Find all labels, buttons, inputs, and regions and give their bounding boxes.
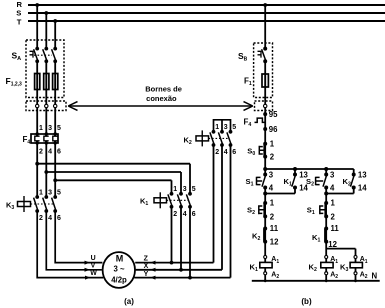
svg-text:5: 5 [192,186,196,193]
svg-text:11: 11 [331,224,340,233]
svg-text:S: S [16,8,21,17]
svg-text:4: 4 [183,211,187,218]
svg-text:6: 6 [232,149,236,156]
svg-text:96: 96 [269,125,278,134]
svg-text:4/2p: 4/2p [111,275,127,284]
svg-text:3: 3 [330,170,335,179]
svg-text:X: X [144,263,149,270]
svg-text:U: U [91,255,96,262]
svg-text:M: M [116,253,124,263]
svg-text:3: 3 [269,170,274,179]
svg-text:4: 4 [48,215,52,222]
svg-text:3: 3 [48,189,52,196]
svg-text:conexão: conexão [146,94,177,103]
svg-text:12: 12 [270,238,279,247]
svg-text:Z: Z [144,255,149,262]
svg-text:T: T [17,17,22,26]
svg-text:6: 6 [57,148,61,155]
svg-text:3 ~: 3 ~ [113,264,125,273]
svg-text:V: V [91,262,96,269]
svg-text:2: 2 [39,148,43,155]
svg-text:2: 2 [39,215,43,222]
svg-text:5: 5 [57,125,61,132]
svg-text:1: 1 [215,124,219,131]
svg-text:1: 1 [173,186,177,193]
svg-text:1: 1 [39,125,43,132]
svg-text:(b): (b) [301,297,312,306]
svg-text:6: 6 [192,211,196,218]
svg-text:2: 2 [173,211,177,218]
svg-text:1: 1 [270,139,275,148]
svg-text:(a): (a) [124,297,134,306]
svg-text:11: 11 [270,224,279,233]
svg-text:5: 5 [232,124,236,131]
svg-text:1: 1 [270,199,275,208]
svg-text:2: 2 [270,153,275,162]
svg-text:1: 1 [39,189,43,196]
svg-text:4: 4 [269,184,274,193]
svg-text:3: 3 [48,125,52,132]
svg-text:1: 1 [331,199,336,208]
svg-text:N: N [372,272,378,281]
svg-text:95: 95 [269,110,278,119]
svg-text:2: 2 [215,149,219,156]
svg-text:W: W [90,270,97,277]
svg-text:Y: Y [144,271,149,278]
svg-text:13: 13 [358,170,367,179]
svg-text:Bornes de: Bornes de [145,85,182,94]
svg-text:12: 12 [328,240,337,249]
svg-text:2: 2 [331,212,336,221]
svg-text:14: 14 [358,184,367,193]
svg-text:4: 4 [330,184,335,193]
svg-text:5: 5 [57,189,61,196]
svg-text:2: 2 [270,212,275,221]
svg-text:6: 6 [57,215,61,222]
svg-text:4: 4 [224,149,228,156]
svg-text:4: 4 [48,148,52,155]
svg-text:3: 3 [224,124,228,131]
svg-text:3: 3 [183,186,187,193]
